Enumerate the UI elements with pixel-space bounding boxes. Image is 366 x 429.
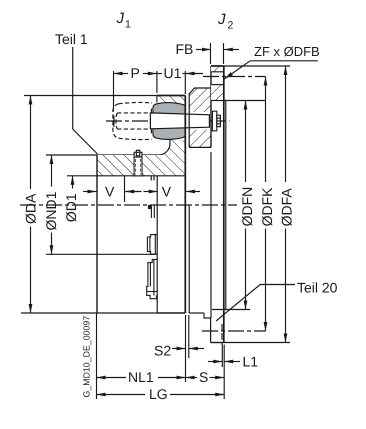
svg-text:FB: FB (176, 41, 194, 57)
hub rim top (Teil 1, section) (157, 96, 185, 103)
nut on pin (212, 111, 216, 131)
dimension ODA (22, 96, 38, 314)
svg-text:ØDA: ØDA (22, 193, 38, 224)
dimension V left (83, 176, 142, 202)
svg-text:NL1: NL1 (128, 369, 154, 385)
dimension S2 (154, 315, 204, 359)
flange disc right face (223, 66, 225, 343)
bolt hole vertical centerline tick bottom (221, 324, 223, 345)
hub ring bottom edge (157, 312, 185, 314)
dimension ODFN extension lines (224, 100, 266, 102)
dimension NL1 (97, 313, 186, 399)
bell vertical centerline tick (113, 116, 115, 128)
hub pocket floor and fillet (97, 140, 170, 155)
hub ring left face lower (view) (156, 176, 158, 313)
svg-text:S2: S2 (154, 343, 171, 359)
hidden bushing bell (J1 side, dashed) (113, 102, 152, 139)
dimension V right (144, 184, 201, 200)
dimension ODFA extension lines (224, 65, 290, 67)
bolt hole axis centerline bottom (202, 330, 266, 332)
hub band (section between bore and sleeve OD) (97, 155, 185, 176)
label Teil 20 with leader (216, 280, 338, 322)
bolt hole axis centerline top (203, 76, 266, 78)
svg-text:ØD1: ØD1 (63, 193, 79, 222)
bolt pin (tapered) (150, 113, 209, 129)
screw detail block lower 2 (147, 259, 158, 298)
hub sleeve bottom edge (view) (97, 253, 157, 255)
dimension FB (176, 41, 240, 64)
flange plate Teil 20 (section) (189, 66, 211, 147)
dimension P (114, 65, 157, 112)
svg-text:V: V (105, 184, 115, 200)
dimension ODFK (259, 77, 275, 332)
keyway tick below axis (148, 205, 154, 218)
dimension ODA extension lines (24, 95, 157, 97)
svg-text:ØDFN: ØDFN (239, 187, 255, 227)
spigot bottom edge (224, 309, 226, 311)
flange rim with bolt hole (section) (211, 66, 226, 101)
svg-text:Teil 1: Teil 1 (55, 31, 88, 47)
svg-text:L1: L1 (243, 354, 259, 370)
svg-text:P: P (131, 65, 140, 81)
elastomer bushing (gray, barrel shaped) (151, 103, 185, 140)
dimension ODFA (278, 66, 294, 343)
svg-text:ØDFA: ØDFA (278, 188, 294, 227)
dimension OND1 extension lines (46, 154, 97, 156)
keyway mark below bore line (151, 176, 154, 181)
hub lower-right of bushing hatched area (159, 140, 186, 156)
svg-text:J: J (217, 11, 226, 28)
svg-text:S: S (199, 369, 208, 385)
dimension ODFN (239, 101, 255, 310)
svg-text:U1: U1 (164, 65, 182, 81)
svg-text:J: J (116, 10, 125, 27)
dimension OND1 (43, 155, 59, 254)
svg-text:ØDFK: ØDFK (259, 187, 275, 227)
screw detail block lower 1 (147, 235, 157, 255)
hub left face (96, 155, 98, 313)
svg-text:G_MD10_DE_00097: G_MD10_DE_00097 (82, 316, 92, 398)
label J2 (217, 11, 234, 32)
svg-text:2: 2 (228, 20, 234, 32)
dimension S (186, 345, 225, 400)
dimension OD1 extension line (67, 175, 97, 177)
svg-text:ØND1: ØND1 (43, 191, 59, 230)
threaded pin end (217, 115, 221, 126)
bolt axis centerline (106, 120, 230, 122)
svg-text:V: V (162, 184, 172, 200)
hub right face (184, 96, 186, 314)
setscrew in hub band (134, 150, 142, 176)
flange plate lower silhouette (view) (189, 152, 224, 343)
svg-text:1: 1 (125, 19, 131, 31)
label J1 (116, 10, 132, 31)
main axis centerline (20, 204, 237, 206)
dimension L1 (208, 345, 258, 370)
label Teil 1 with leader (55, 31, 98, 154)
dimension LG (97, 386, 225, 402)
svg-text:ZF x ØDFB: ZF x ØDFB (254, 44, 320, 59)
svg-text:Teil 20: Teil 20 (297, 280, 338, 296)
dimension OD1 (63, 176, 79, 222)
spigot edge (225, 101, 227, 310)
label ZF x ODFB with leader (225, 44, 320, 79)
svg-text:LG: LG (149, 386, 168, 402)
dimension U1 (157, 65, 203, 94)
